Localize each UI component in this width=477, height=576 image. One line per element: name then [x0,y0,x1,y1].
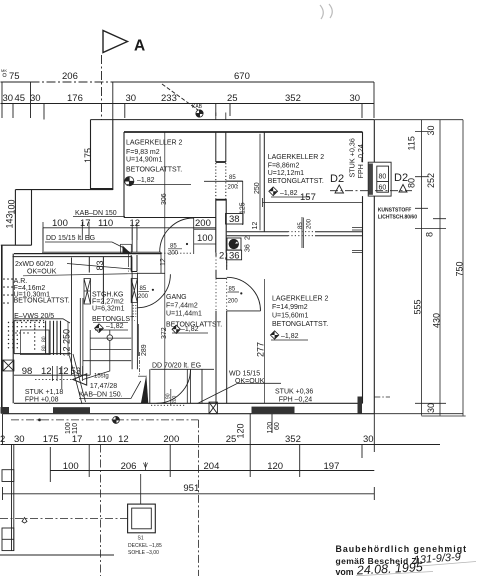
svg-text:12 250: 12 250 [62,329,72,357]
svg-text:30: 30 [350,93,361,104]
svg-text:–1,82: –1,82 [281,333,299,340]
svg-text:2,: 2, [219,251,227,262]
svg-text:DD 70/20 lt. EG: DD 70/20 lt. EG [152,363,201,370]
svg-text:FPH –0,24: FPH –0,24 [279,397,313,404]
svg-text:100: 100 [197,233,213,244]
svg-text:vom: vom [336,567,354,576]
svg-text:206: 206 [121,461,137,472]
svg-text:951: 951 [183,483,199,494]
svg-text:38: 38 [229,214,240,225]
svg-text:555: 555 [413,299,423,314]
svg-text:17: 17 [80,218,91,229]
svg-text:250: 250 [254,182,261,194]
svg-text:200: 200 [138,294,149,300]
svg-text:30: 30 [126,93,137,104]
svg-text:2: 2 [245,236,252,240]
svg-text:2xWD 60/20: 2xWD 60/20 [15,261,54,268]
svg-text:F=2,27m2: F=2,27m2 [92,299,124,306]
svg-text:12: 12 [118,434,129,445]
svg-text:30: 30 [30,93,41,104]
svg-text:197: 197 [324,461,340,472]
svg-text:12: 12 [130,218,141,229]
svg-text:36: 36 [245,244,252,252]
svg-text:90: 90 [165,393,171,399]
svg-text:FPH –0,24: FPH –0,24 [356,144,365,178]
svg-text:80: 80 [407,178,417,188]
svg-text:U=14,90m1: U=14,90m1 [126,157,162,164]
svg-text:200: 200 [195,218,211,229]
svg-text:125: 125 [240,202,247,214]
svg-text:F=8,86m2: F=8,86m2 [268,163,300,170]
svg-text:110: 110 [97,434,112,445]
svg-text:80: 80 [42,345,48,351]
svg-text:17,47/28: 17,47/28 [90,383,117,390]
svg-text:85: 85 [229,287,236,293]
svg-text:306: 306 [161,193,168,205]
svg-text:289: 289 [141,344,148,356]
svg-text:277: 277 [256,342,266,357]
svg-text:110: 110 [72,423,79,434]
svg-text:25: 25 [227,93,238,104]
svg-text:OK=OUK: OK=OUK [235,378,265,385]
svg-text:LAGERKELLER 2: LAGERKELLER 2 [272,296,329,303]
svg-text:75: 75 [9,71,20,82]
svg-text:D2: D2 [330,173,344,185]
svg-text:53: 53 [71,366,82,377]
svg-text:100: 100 [52,218,68,229]
svg-text:176: 176 [67,93,83,104]
svg-text:–1,82: –1,82 [106,323,124,330]
svg-text:670: 670 [234,71,250,82]
svg-text:204: 204 [204,461,220,472]
svg-text:750: 750 [455,261,465,276]
svg-text:157: 157 [300,192,316,203]
svg-text:80: 80 [42,336,48,342]
svg-text:30: 30 [426,125,436,135]
svg-text:15stg: 15stg [94,374,109,380]
svg-text:BETONGLATTST.: BETONGLATTST. [14,298,70,305]
svg-text:DD 15/15 lt. EG: DD 15/15 lt. EG [46,235,95,242]
svg-text:175: 175 [83,148,93,163]
svg-text:A: A [134,38,145,55]
svg-text:OK=OUK: OK=OUK [27,269,57,276]
svg-text:60: 60 [274,422,281,430]
svg-text:200: 200 [168,251,179,257]
svg-text:SOHLE –3,00: SOHLE –3,00 [128,550,159,556]
svg-text:100: 100 [65,422,72,434]
svg-text:MK: MK [1,68,7,73]
svg-text:83: 83 [95,260,105,270]
svg-text:430: 430 [432,313,442,328]
svg-text:100: 100 [7,199,17,214]
svg-text:LICHTSCH.80/60: LICHTSCH.80/60 [378,215,417,221]
svg-text:U=6,32m1: U=6,32m1 [92,306,125,313]
svg-text:–1,82: –1,82 [280,190,298,197]
svg-text:12: 12 [160,258,167,266]
svg-text:F=7,44m2: F=7,44m2 [166,303,198,310]
svg-text:98: 98 [22,366,33,377]
svg-text:372: 372 [161,327,168,339]
svg-text:252: 252 [426,173,436,188]
svg-text:U=12,12m1: U=12,12m1 [268,170,304,177]
svg-text:115: 115 [407,136,417,150]
svg-text:200: 200 [163,434,179,445]
svg-text:120: 120 [267,422,274,434]
svg-text:KAB–DN 150.: KAB–DN 150. [79,392,123,399]
svg-text:110: 110 [98,218,113,229]
svg-text:–1,82: –1,82 [181,326,199,333]
svg-text:143: 143 [5,213,15,228]
svg-text:25: 25 [226,434,237,445]
svg-text:F=9,83 m2: F=9,83 m2 [126,149,160,156]
svg-text:STUK +0,36: STUK +0,36 [275,389,313,396]
svg-text:LAGERKELLER 2: LAGERKELLER 2 [268,154,325,161]
svg-text:45: 45 [15,93,26,104]
svg-text:8: 8 [425,232,435,237]
svg-text:GANG: GANG [166,294,187,301]
svg-text:80: 80 [379,174,387,181]
svg-text:STUK +1,18: STUK +1,18 [25,389,63,396]
svg-text:85: 85 [298,222,304,229]
svg-text:KAB–DN 150: KAB–DN 150 [75,210,117,217]
svg-text:KUNSTSTOFF: KUNSTSTOFF [378,208,412,214]
svg-text:KAB: KAB [192,104,203,110]
svg-text:175: 175 [43,434,59,445]
svg-text:30: 30 [363,434,374,445]
svg-text:200: 200 [172,395,178,404]
svg-text:36: 36 [229,251,240,262]
svg-text:BETONGLATTST.: BETONGLATTST. [268,178,324,185]
svg-text:200: 200 [228,185,239,191]
svg-text:120: 120 [267,461,283,472]
svg-text:206: 206 [62,71,78,82]
svg-text:30: 30 [426,403,436,413]
svg-text:S1: S1 [138,536,144,542]
svg-text:A.R.: A.R. [14,278,28,285]
svg-text:85: 85 [229,175,236,181]
svg-text:12: 12 [58,366,69,377]
svg-text:WD 15/15: WD 15/15 [229,371,260,378]
svg-text:2: 2 [0,434,5,445]
svg-text:STGH.KG: STGH.KG [92,292,124,299]
svg-text:U=11,44m1: U=11,44m1 [166,311,202,318]
svg-text:12: 12 [41,366,52,377]
svg-text:U=15,60m1: U=15,60m1 [272,313,308,320]
svg-text:30: 30 [14,434,25,445]
svg-text:–1,82: –1,82 [137,177,155,184]
svg-text:100: 100 [63,461,79,472]
svg-text:LAGERKELLER 2: LAGERKELLER 2 [126,140,183,147]
svg-text:120: 120 [236,423,246,438]
svg-text:F=14,99m2: F=14,99m2 [272,304,308,311]
svg-text:352: 352 [285,434,301,445]
svg-text:233: 233 [161,93,177,104]
svg-text:352: 352 [285,93,301,104]
svg-text:BETONGLATTST.: BETONGLATTST. [272,321,328,328]
svg-text:BETONGLATTST.: BETONGLATTST. [126,167,182,174]
svg-text:200: 200 [228,299,239,305]
svg-text:60: 60 [379,185,387,192]
svg-text:30: 30 [3,93,14,104]
svg-text:200: 200 [307,218,313,229]
svg-text:DECKEL –1,85: DECKEL –1,85 [128,543,162,549]
svg-text:12: 12 [252,222,259,230]
svg-text:FPH +0,08: FPH +0,08 [25,397,59,404]
svg-text:17: 17 [72,434,83,445]
